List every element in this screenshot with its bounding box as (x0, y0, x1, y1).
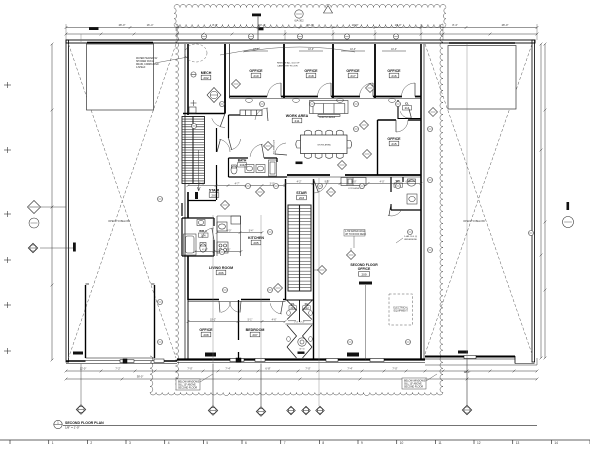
room label WC 219 (394, 179, 403, 188)
dashed equipment circle mech (185, 44, 207, 62)
left vertical dim (x=52) (51, 43, 54, 362)
svg-text:215: 215 (391, 142, 396, 146)
svg-text:WATER HEATER W/: WATER HEATER W/ (136, 57, 158, 60)
svg-text:OFFICE: OFFICE (358, 267, 371, 271)
work area south wall (287, 175, 421, 177)
left margin ticks (4, 82, 11, 354)
left bay opening posts (86, 284, 155, 358)
svg-text:10'-2": 10'-2" (259, 23, 266, 27)
top dimension line 1 (65, 26, 539, 29)
svg-text:16'-4": 16'-4" (147, 23, 154, 27)
revision cloud left edge (176, 24, 179, 390)
revision cloud top band (174, 4, 446, 7)
mid door arcs work area (255, 108, 268, 120)
svg-text:7'-0": 7'-0" (305, 367, 310, 371)
svg-text:8: 8 (322, 441, 324, 445)
svg-text:W / D: W / D (299, 348, 305, 350)
sofa / seating area (310, 101, 349, 117)
kitchenette counter right (341, 178, 366, 186)
svg-text:10'-3": 10'-3" (308, 49, 314, 51)
corridor wall right of stair (216, 128, 218, 200)
right vertical dim (x=545) (544, 43, 547, 360)
svg-text:SECOND FLOOR: SECOND FLOOR (404, 385, 423, 388)
stair arrow left (197, 150, 200, 191)
svg-text:10'-0": 10'-0" (352, 23, 359, 27)
svg-text:210: 210 (253, 74, 258, 78)
leader with text right office (396, 236, 418, 243)
WR-1 fixtures: tub, toilet, sink (184, 220, 207, 256)
room label OFFICE 215 (387, 137, 401, 146)
dark bar left of table (296, 162, 303, 165)
svg-text:203: 203 (299, 196, 304, 200)
keynote left of closets (274, 284, 283, 293)
svg-text:209: 209 (361, 272, 366, 276)
right bay X-brace (open to below) (425, 44, 532, 354)
svg-text:2'-6" , 2'-6": 2'-6" , 2'-6" (294, 322, 305, 324)
washer fixture (298, 338, 306, 346)
wc bottom door keynote (221, 188, 336, 210)
svg-text:4: 4 (168, 441, 170, 445)
svg-text:10'-2": 10'-2" (210, 318, 216, 321)
svg-text:7: 7 (284, 441, 286, 445)
svg-text:UP TO ROOF DECK: UP TO ROOF DECK (345, 234, 367, 236)
svg-text:SEATING AREA: SEATING AREA (319, 116, 335, 119)
outer wall bottom center (177, 360, 425, 363)
svg-text:28'-0": 28'-0" (119, 23, 126, 27)
svg-text:WORK AREA: WORK AREA (286, 114, 309, 118)
mech circle tag + cross (191, 72, 197, 106)
closet CL 214 top right (398, 100, 421, 119)
left grid bubbles (28, 201, 67, 214)
WC fixtures (407, 179, 417, 204)
svg-text:202: 202 (203, 76, 208, 80)
svg-text:10'-3": 10'-3" (350, 49, 356, 51)
keynote bubbles cluster bottom (287, 406, 325, 415)
bedroom door arc east (270, 303, 282, 314)
svg-text:CL: CL (305, 302, 309, 306)
conference chairs (296, 130, 352, 158)
svg-text:1/8" = 1'-0": 1/8" = 1'-0" (65, 426, 80, 430)
closets CL CL below stair (286, 299, 314, 301)
svg-text:4'-10": 4'-10" (202, 249, 208, 251)
office partition walls (225, 44, 375, 114)
svg-text:OFFICE: OFFICE (387, 137, 401, 141)
svg-text:1-HR RATED WALL: 1-HR RATED WALL (345, 230, 366, 233)
svg-text:4'-0": 4'-0" (380, 180, 385, 183)
dark bar keynote top (252, 14, 261, 41)
dark bar below washer (298, 352, 305, 354)
svg-text:OFFICE: OFFICE (199, 328, 213, 332)
svg-text:205: 205 (253, 241, 258, 245)
wall office/bedroom divider (238, 300, 240, 360)
svg-text:SECOND FLOOR PLAN: SECOND FLOOR PLAN (65, 421, 104, 425)
svg-text:2: 2 (90, 441, 92, 445)
room label WR-1 (199, 229, 209, 238)
construction grid lines through plan (81, 34, 467, 407)
outer wall right (532, 40, 535, 362)
svg-text:BEDROOM: BEDROOM (246, 328, 265, 332)
svg-text:KITCHEN: KITCHEN (248, 236, 264, 240)
dark bar near stair (195, 192, 198, 199)
svg-text:STAIR: STAIR (296, 191, 307, 195)
svg-text:OFFICE: OFFICE (387, 69, 401, 73)
room label BATH 204 (238, 159, 248, 168)
room label STAIR 201 (209, 189, 220, 198)
svg-text:208: 208 (203, 333, 208, 337)
center stair S2 (288, 205, 311, 291)
svg-text:OFFICE: OFFICE (304, 69, 318, 73)
svg-text:6'-0": 6'-0" (227, 230, 232, 232)
interior dims row (y=322) office/bedroom (187, 320, 287, 323)
svg-text:12: 12 (477, 441, 481, 445)
window mullion bars bottom (73, 351, 468, 357)
accordion doors upper closets (287, 301, 312, 359)
svg-text:8'-0": 8'-0" (212, 23, 217, 27)
room MECH 202 (201, 71, 212, 80)
tag right wall (529, 231, 534, 236)
svg-text:CL: CL (405, 102, 409, 106)
svg-text:13: 13 (516, 441, 520, 445)
left bay roof rect (87, 44, 154, 110)
svg-text:5: 5 (206, 441, 208, 445)
room OFFICE 216 (387, 69, 401, 78)
living room south wall (188, 300, 286, 302)
svg-text:7'-4": 7'-4" (347, 367, 352, 371)
svg-text:10: 10 (400, 441, 404, 445)
top dimension line 2 (65, 33, 539, 36)
svg-text:WORK AREA: WORK AREA (317, 143, 331, 146)
wall work area right-room OFFICE 215 (378, 120, 422, 175)
stair hall walls (286, 179, 314, 360)
svg-text:OFFICE: OFFICE (249, 69, 263, 73)
room OFFICE 217 (346, 69, 360, 78)
vanity wall top (229, 115, 241, 138)
keynotes in work area (232, 80, 438, 170)
svg-text:LIVING ROOM: LIVING ROOM (209, 266, 233, 270)
title: SECOND FLOOR PLAN (54, 420, 537, 429)
KITCHEN counters (217, 216, 241, 256)
svg-text:38'-0": 38'-0" (137, 375, 144, 379)
room label LIVING ROOM 206 (209, 266, 233, 275)
small fixtures mech room (189, 107, 196, 113)
office door arcs (268, 83, 282, 97)
svg-text:STAIR: STAIR (209, 189, 220, 193)
outer wall bottom right bay (425, 356, 535, 364)
MECH room south wall (183, 113, 225, 115)
svg-text:SECOND FLOOR: SECOND FLOOR (178, 386, 197, 389)
window tags on top dim (201, 34, 398, 39)
living room dims (194, 250, 243, 253)
bottom dimension line 2 (65, 378, 539, 381)
room label SECOND FLOOR OFFICE 209 (350, 263, 378, 276)
closet partition walls (286, 300, 314, 324)
svg-text:DRAIN, FABRICATED: DRAIN, FABRICATED (136, 63, 159, 66)
svg-text:7'-0": 7'-0" (187, 367, 192, 371)
room label WORK AREA 211 (286, 114, 309, 123)
left bay X-brace (open to below) (69, 44, 177, 358)
room label KITCHEN 205 (248, 236, 264, 245)
grid line B (x=213) (212, 364, 214, 406)
svg-text:7'-0": 7'-0" (392, 367, 397, 371)
svg-text:5'-4": 5'-4" (249, 230, 254, 232)
center-right main wall (421, 44, 424, 359)
svg-text:4'-7": 4'-7" (235, 182, 240, 185)
svg-text:OPEN TO BELOW: OPEN TO BELOW (463, 219, 485, 223)
room OFFICE 210 (249, 69, 263, 78)
grid line D (x=467) (466, 358, 468, 405)
svg-text:9: 9 (361, 441, 363, 445)
svg-text:A SHELF: A SHELF (136, 66, 146, 69)
interior dims row (y=185) (187, 184, 287, 187)
svg-text:10'-0": 10'-0" (307, 23, 314, 27)
svg-text:14: 14 (554, 441, 558, 445)
svg-text:EQUIPMENT: EQUIPMENT (394, 310, 409, 313)
svg-text:218: 218 (308, 74, 313, 78)
svg-text:UNDERSIDE: UNDERSIDE (404, 239, 417, 241)
bath fixtures (231, 160, 277, 176)
note box bottom-left: BELOW WINDOWS (176, 374, 213, 390)
revision cloud bottom edge (150, 393, 443, 396)
window/door tags on office wall (246, 98, 396, 102)
bath walls (229, 158, 288, 177)
left bay annotation: water heater note (136, 57, 188, 69)
svg-text:204: 204 (240, 163, 245, 167)
svg-text:7'-4": 7'-4" (225, 367, 230, 371)
note box bottom-right: BELOW WINDOWS (402, 374, 437, 389)
svg-text:5'-1": 5'-1" (248, 318, 253, 321)
interior dims row (y=196) mid (284, 182, 423, 185)
room label BEDROOM 207 (246, 328, 265, 337)
svg-text:4'-2": 4'-2" (297, 180, 302, 183)
svg-text:217: 217 (350, 74, 355, 78)
conference table (301, 135, 348, 154)
svg-text:9'-0": 9'-0" (352, 180, 357, 183)
svg-text:5'-10": 5'-10" (199, 182, 205, 185)
svg-text:216: 216 (391, 74, 396, 78)
room OFFICE 218 (304, 69, 318, 78)
svg-text:6'-8": 6'-8" (265, 367, 270, 371)
svg-text:207: 207 (252, 333, 257, 337)
grid bubble A (76, 405, 86, 415)
window mullion bars in bottom walls (120, 356, 476, 364)
closet side tags (287, 310, 313, 341)
grid line A (x=81) (80, 364, 82, 405)
svg-text:214: 214 (405, 106, 410, 110)
living room double doors (221, 302, 231, 312)
top extension lines (66, 17, 537, 40)
svg-text:10'-3": 10'-3" (391, 49, 397, 51)
center-left main wall (185, 44, 188, 359)
revision triangle marker (324, 6, 333, 14)
svg-text:BATH: BATH (238, 159, 247, 163)
svg-text:1: 1 (52, 441, 54, 445)
outer wall top (66, 40, 535, 43)
room label OFFICE 208 (199, 328, 213, 337)
right bay roof rect (448, 46, 516, 110)
office front wall (horizontal) (230, 97, 422, 99)
svg-text:4'-6": 4'-6" (272, 318, 277, 321)
left stair S1 (182, 117, 205, 184)
svg-text:9'-0": 9'-0" (325, 180, 330, 183)
dark bar top-center dim (259, 27, 264, 30)
note in office 218 (277, 62, 300, 68)
keynote diamond top mech (207, 88, 221, 103)
svg-text:211: 211 (295, 119, 300, 123)
leader lines top offices (220, 47, 355, 55)
dark bar top-left dim (89, 27, 99, 30)
hall wall below stair (182, 201, 216, 217)
bottom dimension line 1 (65, 370, 539, 373)
svg-text:28'-0": 28'-0" (502, 23, 509, 27)
svg-text:11: 11 (438, 441, 442, 445)
svg-text:7'-6": 7'-6" (226, 249, 231, 251)
office 209 annotations top (344, 230, 367, 249)
svg-text:6'-0": 6'-0" (406, 180, 411, 183)
right grid bubble (563, 202, 574, 228)
revision cloud right edge (440, 24, 443, 393)
svg-text:10'-0": 10'-0" (395, 23, 402, 27)
keynote circle in top cloud (294, 10, 304, 23)
grid line C (x=261) (260, 364, 262, 407)
svg-text:1-HR CLG @: 1-HR CLG @ (404, 236, 418, 238)
svg-text:3: 3 (129, 441, 131, 445)
svg-text:MECH: MECH (201, 71, 212, 75)
svg-text:OPEN TO BELOW: OPEN TO BELOW (108, 219, 130, 223)
WC walls (391, 177, 421, 210)
svg-text:KITCHENETTE: KITCHENETTE (272, 140, 274, 155)
svg-text:OFFICE: OFFICE (346, 69, 360, 73)
outer wall bottom left bay (66, 358, 177, 364)
bottom sheet ruler (0, 440, 590, 444)
svg-text:7'-2": 7'-2" (115, 367, 120, 371)
right bay outer face line (425, 364, 537, 366)
svg-text:6: 6 (245, 441, 247, 445)
room label STAIR 203 (296, 191, 307, 200)
electrical equipment dashed box (389, 294, 413, 325)
svg-text:SHOWER PAN &: SHOWER PAN & (136, 60, 154, 63)
svg-text:206: 206 (218, 271, 223, 275)
small closet mid (240, 110, 262, 116)
svg-text:8'-4": 8'-4" (452, 23, 457, 27)
svg-text:212: 212 (304, 306, 309, 310)
svg-text:REMOVE ALL 10-ft OF: REMOVE ALL 10-ft OF (277, 62, 300, 65)
WR-1 walls (182, 218, 214, 256)
svg-text:12'-0": 12'-0" (80, 367, 87, 371)
bath door arc (250, 144, 263, 157)
outer wall left (66, 40, 69, 362)
second floor office keynote with line (365, 285, 367, 360)
corridor door arcs top (212, 118, 225, 127)
svg-text:CABINETRY FLOOR: CABINETRY FLOOR (277, 65, 298, 68)
svg-text:6/A-302: 6/A-302 (294, 19, 304, 23)
keynote right of stair base (314, 266, 327, 275)
tiny tags scattered (158, 102, 433, 345)
